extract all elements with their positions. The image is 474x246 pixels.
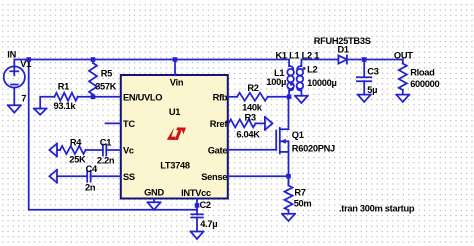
svg-text:GND: GND	[144, 188, 164, 198]
node dot rail/R5	[91, 57, 96, 62]
svg-text:R5: R5	[101, 69, 112, 79]
node dot L1/R2/Q1	[287, 95, 292, 100]
node dot rail/V1	[26, 57, 31, 62]
svg-text:100µ: 100µ	[266, 77, 286, 87]
resistor R3	[229, 113, 261, 140]
node dot Sense/Q1/R7	[286, 174, 291, 179]
svg-text:TC: TC	[123, 119, 135, 129]
svg-text:R7: R7	[294, 188, 305, 198]
svg-text:R1: R1	[58, 81, 69, 91]
resistor R2	[237, 83, 268, 112]
resistor R7	[285, 176, 312, 214]
wire top rail	[14, 60, 289, 67]
inductor L1	[266, 60, 294, 97]
svg-text:25K: 25K	[69, 155, 86, 165]
wire EN/UVLO row	[78, 96, 121, 98]
svg-text:Rfb: Rfb	[213, 93, 228, 103]
resistor R1	[54, 81, 78, 111]
svg-text:Q1: Q1	[292, 130, 304, 140]
wire INTVcc drop	[196, 199, 198, 215]
svg-text:4.7µ: 4.7µ	[200, 219, 217, 229]
svg-text:Gate: Gate	[208, 146, 228, 156]
capacitor C1	[97, 138, 115, 166]
svg-text:EN/UVLO: EN/UVLO	[123, 93, 162, 103]
resistor R5	[89, 60, 117, 97]
wire GND stub	[153, 199, 155, 203]
ground under V1	[8, 88, 21, 113]
svg-text:C1: C1	[100, 138, 111, 148]
ground at GND pin	[148, 202, 161, 210]
svg-text:600000: 600000	[410, 79, 439, 89]
svg-text:R3: R3	[245, 113, 256, 123]
ground under L2	[295, 96, 308, 103]
svg-text:2.2n: 2.2n	[97, 155, 115, 165]
node dot rail/Vin	[173, 57, 178, 62]
svg-text:50m: 50m	[294, 199, 312, 209]
wire R1 left	[40, 97, 54, 109]
wire D1 to OUT	[347, 59, 403, 61]
svg-text:6.04K: 6.04K	[236, 130, 260, 140]
svg-text:93.1k: 93.1k	[54, 101, 77, 111]
wire Rfb stub	[228, 96, 237, 98]
LT logo U1	[167, 127, 186, 140]
ground rotated at SS row	[49, 170, 57, 183]
svg-text:D1: D1	[338, 45, 349, 55]
svg-text:7: 7	[21, 93, 26, 103]
transistor Q1	[276, 97, 335, 183]
wire Gate	[228, 149, 276, 151]
capacitor C4	[85, 164, 98, 192]
ground under Rload	[396, 95, 409, 102]
capacitor C2	[191, 200, 217, 231]
svg-text:Vc: Vc	[123, 146, 134, 156]
svg-text:C3: C3	[367, 67, 378, 77]
svg-text:R2: R2	[247, 83, 258, 93]
wire C4 to SS	[91, 175, 121, 177]
svg-text:L2: L2	[307, 65, 317, 75]
resistor R4	[60, 138, 86, 165]
svg-text:LT3748: LT3748	[160, 161, 190, 171]
ground under C3	[358, 95, 371, 102]
capacitor C3	[357, 60, 379, 95]
wire R3 to ground	[256, 122, 265, 124]
ground under R7	[282, 214, 295, 221]
svg-text:2n: 2n	[85, 182, 96, 192]
op-amp U1 LT3748 body	[121, 75, 229, 199]
ground rotated at Vc row	[49, 144, 57, 157]
wire left vertical drop	[29, 60, 197, 210]
wire SS row left	[57, 175, 87, 177]
ground under C2	[191, 232, 204, 240]
svg-text:INTVcc: INTVcc	[181, 188, 211, 198]
ground at R1	[34, 109, 47, 115]
svg-text:Rref: Rref	[210, 119, 229, 129]
svg-text:R6020PNJ: R6020PNJ	[292, 143, 335, 153]
svg-text:5µ: 5µ	[367, 85, 377, 95]
svg-text:Sense: Sense	[201, 172, 227, 182]
svg-text:10000µ: 10000µ	[307, 78, 336, 88]
wire TC stub	[106, 122, 121, 124]
svg-text:R4: R4	[70, 138, 82, 148]
node dot C3	[362, 57, 367, 62]
wire C1 to Vc	[106, 149, 121, 151]
svg-text:C2: C2	[200, 200, 211, 210]
svg-text:U1: U1	[169, 107, 180, 117]
svg-text:Rload: Rload	[410, 67, 435, 77]
wire Vin stub	[174, 60, 176, 76]
wire R4 to C1	[86, 149, 103, 151]
voltage source V1	[4, 59, 32, 103]
svg-text:357K: 357K	[95, 82, 117, 92]
ground rotated right at R3	[265, 117, 273, 130]
wire R2 to node	[268, 96, 289, 98]
diode D1	[314, 36, 371, 64]
node dot R5/R1/EN	[91, 95, 96, 100]
wire Sense	[228, 175, 289, 177]
svg-text:IN: IN	[7, 49, 16, 59]
svg-text:Vin: Vin	[170, 77, 184, 87]
node dot C2	[195, 203, 200, 208]
resistor Rload	[399, 60, 440, 95]
svg-text:SS: SS	[123, 172, 135, 182]
svg-text:.tran 300m startup: .tran 300m startup	[339, 203, 415, 213]
svg-text:C4: C4	[86, 164, 98, 174]
inductor L2	[297, 60, 339, 96]
wire Vc row left	[57, 149, 60, 151]
svg-text:140k: 140k	[242, 102, 263, 112]
